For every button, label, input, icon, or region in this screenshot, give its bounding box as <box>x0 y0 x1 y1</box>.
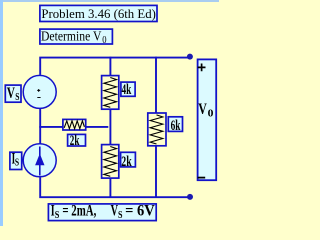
svg-text:V: V <box>198 101 207 118</box>
svg-text:0: 0 <box>102 34 107 46</box>
label box 4k <box>121 82 135 98</box>
wire: middle column top to 4k <box>109 57 111 77</box>
label box 6k <box>168 117 182 134</box>
determine box <box>40 28 113 46</box>
wire: right column 6k to bottom <box>155 145 157 198</box>
voltage source VS <box>23 75 56 108</box>
svg-text:V: V <box>111 203 118 220</box>
svg-text:S: S <box>15 157 19 168</box>
svg-text:S: S <box>15 92 19 103</box>
resistor R2 2k vertical <box>102 145 119 179</box>
window border top <box>0 0 219 2</box>
label box IS <box>10 150 22 169</box>
window border left <box>0 0 3 226</box>
label box VS <box>5 85 21 103</box>
wire: middle branch left segment <box>39 126 64 128</box>
label box 2k (horizontal resistor) <box>68 133 86 149</box>
resistor R4 2k horizontal <box>63 119 86 130</box>
node top-right <box>187 54 193 60</box>
svg-text:S: S <box>118 210 123 221</box>
svg-text:2k: 2k <box>70 133 80 149</box>
output terminal V0 <box>198 59 217 180</box>
wire: right column top to 6k <box>155 57 157 114</box>
node bottom-right <box>187 194 193 200</box>
svg-text:= 6V: = 6V <box>125 203 155 220</box>
svg-text:4k: 4k <box>122 82 132 98</box>
svg-text:Determine V: Determine V <box>41 28 102 43</box>
svg-text:6k: 6k <box>171 118 181 134</box>
resistor R1 4k <box>102 76 119 110</box>
wire: middle branch right segment <box>85 126 108 128</box>
title box <box>40 5 157 21</box>
wire: top rail with left corner <box>40 58 190 75</box>
wire: bottom rail with left corner <box>40 177 190 197</box>
svg-text:Problem 3.46 (6th Ed): Problem 3.46 (6th Ed) <box>41 6 155 21</box>
wire: left column between VS and IS <box>39 109 41 144</box>
wire: middle column 2k to bottom <box>109 177 111 198</box>
resistor R3 6k <box>148 113 166 146</box>
svg-text:2k: 2k <box>121 154 132 170</box>
wire: middle column 4k to 2k <box>109 109 111 146</box>
svg-text:= 2mA,: = 2mA, <box>62 203 96 220</box>
equation box <box>48 203 156 221</box>
svg-text:V: V <box>7 85 15 102</box>
current source IS <box>23 144 56 177</box>
svg-text:0: 0 <box>208 108 214 119</box>
svg-text:S: S <box>55 210 60 221</box>
label box 2k (vertical resistor) <box>121 152 136 170</box>
